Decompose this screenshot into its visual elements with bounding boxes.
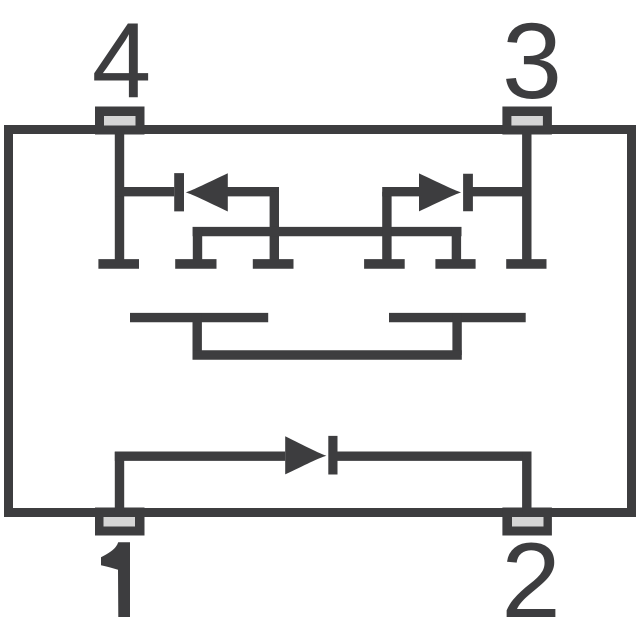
svg-text:3: 3 bbox=[502, 0, 562, 121]
wire: Q1 body-diode axis left segment bbox=[115, 187, 174, 196]
pin 1 label bbox=[101, 542, 130, 617]
pin 4 pad bbox=[95, 107, 145, 135]
svg-text:4: 4 bbox=[92, 0, 152, 120]
MOSFET Q1 source foot bbox=[253, 259, 294, 269]
MOSFET Q2 source foot bbox=[364, 259, 405, 269]
MOSFET Q1 drain foot bbox=[98, 259, 139, 269]
wire: Q2 body stub bbox=[452, 227, 461, 264]
svg-text:2: 2 bbox=[501, 520, 561, 640]
package outline bbox=[9, 130, 632, 513]
MOSFET Q1 body foot bbox=[175, 259, 216, 269]
wire: LED axis right segment bbox=[337, 452, 532, 461]
wire: Q2 anode down-leg bbox=[382, 192, 391, 264]
wire: Q1 body-diode axis right segment bbox=[228, 187, 280, 196]
wire: source/body interconnect line bbox=[193, 227, 462, 236]
wire: LED left riser bbox=[115, 452, 124, 513]
wire: gate interconnect bottom line bbox=[193, 350, 462, 359]
diode D1 cathode bar bbox=[174, 173, 184, 211]
wire: pin 3 drain vertical bbox=[522, 130, 531, 264]
wire: LED axis left segment bbox=[115, 452, 285, 461]
wire: Q1 gate vertical bbox=[192, 313, 201, 355]
MOSFET Q2 gate bar bbox=[389, 313, 526, 322]
pin 1 pad bbox=[95, 508, 145, 536]
pin 2 pad bbox=[502, 508, 552, 536]
wire: Q1 anode down-leg bbox=[270, 192, 279, 264]
diode D2 cathode bar bbox=[463, 174, 473, 212]
wire: Q2 gate vertical bbox=[452, 313, 461, 355]
wire: Q2 body-diode axis left segment bbox=[382, 187, 425, 196]
pin 3 pad bbox=[502, 107, 552, 135]
LED D3 arrow (points right) bbox=[285, 436, 326, 474]
wire: Q1 body stub bbox=[193, 227, 202, 264]
diode D1 arrow (points left) bbox=[186, 173, 228, 211]
LED D3 cathode bar bbox=[328, 436, 337, 475]
MOSFET Q2 drain foot bbox=[506, 259, 546, 269]
wire: pin 4 drain vertical bbox=[115, 130, 124, 264]
wire: Q2 body-diode axis right segment bbox=[472, 187, 532, 196]
MOSFET Q2 body foot bbox=[435, 259, 475, 269]
diode D2 arrow (points right) bbox=[419, 173, 461, 211]
MOSFET Q1 gate bar bbox=[130, 313, 268, 322]
wire: LED right riser bbox=[522, 452, 531, 513]
